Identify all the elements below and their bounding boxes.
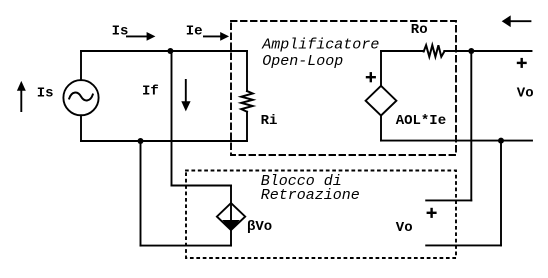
svg-text:If: If (142, 83, 159, 99)
wire: feedback bottom horizontal (141, 245, 232, 247)
dependent source bVo (diamond with down arrow) (217, 203, 245, 230)
dependent source AOL*Ie (diamond) (366, 86, 397, 116)
resistor Ro (424, 45, 445, 57)
arrow If current (down) (181, 79, 190, 111)
wire: output plus vertical drop (470, 51, 472, 200)
junction dot node A (Is/Ie/If) (167, 48, 173, 54)
svg-text:Amplificatore: Amplificatore (261, 37, 379, 54)
wire: lower Vo minus stub (426, 244, 501, 246)
label plus upper Vo (517, 58, 527, 68)
title Amplificatore Open-Loop (261, 37, 379, 70)
wire: top-right rail (381, 50, 424, 52)
wire: source top lead (80, 51, 82, 80)
wire: If branch vertical (171, 51, 173, 186)
wire: top-left rail node A (81, 50, 247, 52)
junction dot bottom-left (138, 138, 144, 144)
svg-text:Open-Loop: Open-Loop (262, 53, 343, 70)
svg-text:βVo: βVo (247, 219, 272, 235)
wire: lower Vo plus stub (426, 199, 471, 201)
arrow Is input (up) (17, 81, 26, 112)
arrow output current (left) (502, 15, 532, 27)
svg-text:Ro: Ro (411, 22, 428, 38)
wire: feedback return vertical (140, 141, 142, 246)
svg-text:Retroazione: Retroazione (261, 187, 360, 204)
arrow Ie current (right) (203, 32, 229, 41)
junction dot output top (468, 48, 474, 54)
wire: bottom-left rail (81, 140, 247, 142)
label plus AOL source (366, 72, 376, 82)
wire: bottom-right rail (381, 140, 532, 142)
svg-text:Ri: Ri (261, 113, 278, 129)
wire: output minus vertical drop (500, 141, 502, 246)
svg-text:Ie: Ie (186, 23, 203, 39)
svg-text:Vo: Vo (396, 220, 413, 236)
resistor Ri (241, 51, 252, 141)
current source Is (AC source circle) (63, 80, 98, 115)
wire: source bottom lead (80, 115, 82, 141)
svg-text:Is: Is (37, 86, 54, 102)
wire: diamond bottom lead (230, 230, 232, 246)
dashed box Amplificatore Open-Loop (231, 21, 456, 155)
svg-text:Is: Is (112, 23, 129, 39)
wire: AOL source top lead (380, 51, 382, 86)
wire: AOL source bottom lead (380, 116, 382, 141)
wire: rail from Ro to output (444, 50, 531, 52)
wire: feedback horizontal to diamond (172, 185, 232, 187)
title Blocco di Retroazione (261, 173, 360, 204)
dotted box Blocco di Retroazione (186, 171, 456, 259)
junction dot bottom-right (498, 138, 504, 144)
label plus lower Vo (427, 208, 437, 218)
svg-text:AOL*Ie: AOL*Ie (396, 113, 446, 129)
wire: diamond top lead (230, 186, 232, 204)
svg-text:Vo: Vo (517, 86, 534, 102)
arrow Is current (right) (126, 32, 155, 41)
